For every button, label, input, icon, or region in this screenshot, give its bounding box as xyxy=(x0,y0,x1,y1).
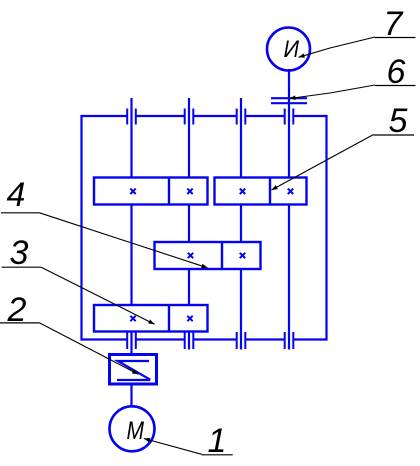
output circle I (И) xyxy=(267,28,310,71)
housing frame right wall xyxy=(325,115,327,341)
svg-text:И: И xyxy=(284,36,300,63)
label 1 underline xyxy=(202,454,233,456)
label 6 underline xyxy=(375,85,416,87)
svg-text:3: 3 xyxy=(10,234,29,272)
label 6 leader xyxy=(290,85,376,99)
gear mark A1 xyxy=(130,189,135,194)
label 3 underline xyxy=(2,266,42,268)
bearing shaft I top xyxy=(127,109,136,125)
bearing shaft II top xyxy=(185,109,194,125)
bearing shaft II bottom xyxy=(185,332,194,349)
label 7 leader xyxy=(299,37,376,57)
label 3 leader xyxy=(41,267,154,324)
bearing shaft I bottom xyxy=(127,332,136,349)
motor M circle xyxy=(110,406,155,451)
svg-text:5: 5 xyxy=(389,102,408,140)
bearing shaft III bottom xyxy=(237,332,246,349)
gear block B (shafts III-IV, top row) xyxy=(215,178,307,205)
shaft IV xyxy=(288,69,290,350)
gear mark C2 xyxy=(240,253,245,258)
gear block C (shafts II-III, middle row) xyxy=(155,242,261,269)
gear mark D1 xyxy=(130,316,135,321)
gear block A (shafts I-II, top row) xyxy=(94,178,208,205)
gear mark C1 xyxy=(188,253,193,258)
gear mark B1 xyxy=(240,189,245,194)
gear mark D2 xyxy=(187,316,192,321)
label 2 leader xyxy=(40,323,139,374)
coupling 2 box (motor clutch) xyxy=(110,355,157,385)
bearing shaft IV top xyxy=(285,109,294,125)
housing frame bottom wall xyxy=(82,338,327,340)
label 2 underline xyxy=(0,322,40,324)
label 5 underline xyxy=(374,134,415,136)
coupling 2 inner Z symbol xyxy=(117,361,150,380)
gear mark A2 xyxy=(187,189,192,194)
shaft I lower stub to motor xyxy=(130,384,132,407)
label 4 underline xyxy=(1,212,40,214)
bearing shaft IV bottom xyxy=(285,332,294,349)
bearing shaft III top xyxy=(237,109,246,125)
shaft III xyxy=(240,98,242,350)
housing frame left wall xyxy=(80,115,82,341)
svg-text:4: 4 xyxy=(7,176,26,214)
gear mark B2 xyxy=(288,189,293,194)
label 1 leader xyxy=(144,439,202,455)
shaft II xyxy=(188,98,190,350)
coupling 6 (two bars on shaft IV) xyxy=(271,98,307,103)
housing frame top wall xyxy=(82,115,327,117)
svg-text:M: M xyxy=(127,417,145,445)
shaft I xyxy=(130,98,132,354)
label 5 leader xyxy=(272,135,374,191)
label 4 leader xyxy=(40,213,208,268)
label 7 underline xyxy=(375,37,416,39)
gear block D (shafts I-II, bottom row) xyxy=(94,305,208,332)
